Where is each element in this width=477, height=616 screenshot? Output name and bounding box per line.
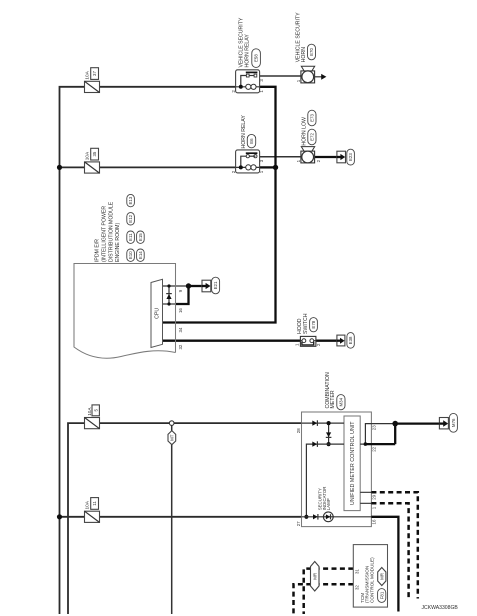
diode D4 on pin 27 row	[313, 514, 318, 519]
svg-text:E11: E11	[128, 233, 133, 241]
svg-text:35: 35	[92, 151, 97, 156]
CPU strip	[151, 279, 163, 347]
svg-text:JCKWA3308GB: JCKWA3308GB	[422, 605, 459, 611]
svg-text:HORN RELAY: HORN RELAY	[245, 34, 251, 68]
connector oval E10	[127, 249, 135, 261]
connector oval E6	[247, 134, 255, 147]
connector oval M76	[449, 413, 457, 432]
wire IPDM pin 16 row	[163, 303, 177, 305]
wire fuse row 3 to combination meter pin 28	[68, 423, 302, 614]
svg-text:METER: METER	[330, 390, 336, 408]
junction dot bus fuse row 4	[57, 514, 62, 519]
dashed CAN wire meter pin 1	[371, 503, 408, 598]
connector oval E13	[127, 194, 135, 206]
ground connector box E21 at IPDM	[202, 280, 211, 292]
connector oval E12	[127, 213, 135, 225]
relay R1 junction dot	[239, 85, 243, 89]
svg-text:34: 34	[178, 327, 183, 332]
wire left power bus with corner at fuse row 1	[60, 87, 236, 614]
connector oval E73	[308, 110, 316, 126]
wire relay pin 1 bus down to IPDM pin 34	[163, 87, 276, 323]
relay R1 coil wire segments	[236, 86, 260, 88]
svg-text:(INTELLIGENT POWER: (INTELLIGENT POWER	[102, 206, 108, 262]
svg-text:37: 37	[92, 71, 97, 76]
diode D1 on pin 28 row	[312, 421, 317, 426]
svg-text:28: 28	[296, 428, 301, 433]
relay R2 armature bar	[246, 152, 258, 154]
svg-text:10A: 10A	[85, 151, 90, 160]
fuse F1 10A 37	[85, 81, 100, 92]
svg-text:UNIFIED METER CONTROL UNIT: UNIFIED METER CONTROL UNIT	[350, 421, 356, 505]
svg-text:E15: E15	[138, 233, 143, 241]
diode D3 on pin 22 row	[312, 442, 317, 447]
relay R2 switch contacts	[246, 155, 249, 158]
svg-text:E23: E23	[348, 153, 353, 161]
wire IPDM pin 9 row	[163, 285, 189, 287]
svg-text:27: 27	[296, 521, 301, 526]
combination meter box	[302, 412, 372, 527]
junction dot IPDM pin 9 node	[186, 283, 191, 288]
meter internal row to pin 22 from pin 27 riser	[306, 444, 344, 517]
dashed CAN wire meter pin 29	[371, 492, 417, 598]
wire horn low pin 2 to ground connector E23	[315, 156, 337, 158]
diode IPDM internal (pointing up)	[166, 294, 171, 299]
svg-text:E12: E12	[128, 214, 133, 222]
relay R1 vehicle security horn relay box	[236, 70, 260, 93]
svg-text:22: 22	[371, 446, 376, 451]
junction dot node row28	[327, 421, 331, 425]
svg-text:LAMP: LAMP	[326, 498, 331, 510]
meter internal tie with diode D2	[328, 423, 330, 444]
svg-text:E58: E58	[254, 54, 259, 62]
svg-text:10A: 10A	[87, 407, 92, 416]
svg-text:32: 32	[178, 344, 183, 349]
fuse F3 10A 5	[85, 418, 100, 429]
horn low symbol	[301, 151, 315, 163]
connector oval E14	[137, 249, 145, 261]
wire IPDM pin 16 thick jog up to pin 9 node	[176, 286, 189, 304]
svg-text:32: 32	[354, 585, 359, 590]
IPDM E/R box outline with torn bottom edge	[74, 264, 176, 359]
junction dot IPDM diode bottom	[167, 302, 170, 305]
junction dot IPDM diode top	[167, 284, 170, 287]
vehicle security horn symbol	[301, 71, 315, 83]
connector oval E11	[127, 231, 135, 243]
svg-text:E38: E38	[348, 336, 353, 344]
svg-text:DISTRIBUTION MODULE: DISTRIBUTION MODULE	[108, 201, 114, 262]
wire IPDM node to connector E21	[189, 285, 203, 287]
TCM box	[353, 545, 387, 608]
ground connector box at horn low	[337, 151, 346, 163]
junction dot node row22	[327, 442, 331, 446]
ground connector box E38 at hood switch	[337, 335, 345, 346]
meter pin 16 wire thick to bottom	[371, 517, 398, 612]
wire relay R2 pin 3 to horn low	[260, 156, 301, 158]
svg-text:16: 16	[372, 519, 377, 524]
security indicator lamp	[323, 512, 333, 522]
variant tag hexagon M/T	[168, 431, 176, 445]
unified meter control unit box	[344, 416, 360, 511]
fuse F4 10A 11	[85, 511, 100, 522]
svg-text:11: 11	[92, 501, 97, 506]
meter ground tie rows 23 and 22	[360, 424, 395, 445]
node open circle M/T branch	[169, 421, 174, 426]
svg-text:MT: MT	[170, 434, 175, 441]
svg-text:MR: MR	[312, 573, 317, 580]
relay R2 coil wire segments	[236, 166, 260, 168]
ground arrow at vehicle security horn	[315, 76, 322, 78]
relay R2 horn relay box	[236, 150, 260, 173]
svg-text:MR: MR	[379, 573, 384, 580]
svg-text:E14: E14	[138, 251, 143, 259]
relay R2 junction dot	[239, 165, 243, 169]
wire meter ground to connector M76	[395, 422, 439, 424]
wire IPDM internal diode branch	[168, 286, 170, 304]
svg-text:CPU: CPU	[155, 308, 161, 319]
svg-text:SWITCH: SWITCH	[303, 313, 309, 334]
svg-text:F81: F81	[379, 591, 384, 599]
relay R2 coil-switch link	[241, 156, 247, 167]
svg-text:31: 31	[354, 569, 359, 574]
meter internal row pin 28	[302, 422, 345, 424]
relay R1 coil	[246, 84, 251, 89]
svg-text:M34: M34	[339, 397, 344, 406]
svg-text:HORN: HORN	[301, 47, 307, 63]
relay R1 coil-switch link	[241, 76, 247, 87]
wire relay R2 pin 1 to junction	[260, 166, 276, 168]
ground connector box M76	[439, 418, 448, 429]
connector oval E15	[137, 231, 145, 243]
junction dot pin 27 branch	[304, 515, 308, 519]
connector oval E72	[308, 129, 316, 145]
wire M/T branch vertical	[171, 425, 173, 614]
svg-text:HORN LOW: HORN LOW	[301, 117, 307, 146]
svg-text:E21: E21	[213, 281, 218, 289]
svg-text:CONTROL MODULE): CONTROL MODULE)	[369, 557, 374, 603]
relay R1 armature bar	[246, 71, 258, 73]
svg-text:10A: 10A	[85, 500, 90, 509]
variant tag hexagon MR on CAN wires	[311, 562, 320, 592]
wire relay R1 pin 3 to vehicle security horn	[260, 75, 301, 77]
svg-text:16: 16	[178, 308, 183, 313]
relay R1 switch contacts	[246, 74, 249, 77]
svg-text:IPDM E/R: IPDM E/R	[95, 239, 101, 262]
svg-text:23: 23	[371, 425, 376, 430]
wire fuse row 2 to horn relay	[60, 166, 236, 168]
wire IPDM pin 32 to hood switch	[163, 340, 301, 342]
hood switch terminals	[302, 339, 306, 343]
connector oval F81	[378, 589, 386, 603]
relay R2 coil	[246, 165, 251, 170]
svg-text:E10: E10	[128, 251, 133, 259]
hood switch box	[300, 336, 316, 346]
junction dot relay bus at horn relay pin 1	[273, 165, 278, 170]
svg-text:M76: M76	[451, 418, 456, 427]
fuse F2 10A 35	[85, 162, 100, 173]
meter CAN rows inside	[360, 492, 371, 503]
wire hood switch pin 2 to ground connector E38	[316, 340, 337, 342]
connector oval M34	[337, 395, 345, 410]
svg-text:HORN RELAY: HORN RELAY	[241, 115, 247, 149]
svg-text:E6: E6	[249, 138, 254, 144]
connector oval E23	[347, 149, 355, 165]
meter internal row pin 27 to lamp	[302, 516, 372, 518]
connector oval E21	[212, 277, 220, 294]
svg-text:E72: E72	[310, 133, 315, 141]
dashed CAN wire TCM pin 31	[304, 569, 354, 614]
variant tag hexagon MR inside TCM	[378, 568, 386, 586]
hood switch blade	[302, 342, 314, 345]
junction dot bus fuse row 2	[57, 165, 62, 170]
wire fuse row 4 to combination meter pin 27	[60, 516, 302, 518]
junction dot meter ground node	[392, 421, 398, 427]
connector oval E58	[252, 49, 261, 68]
svg-text:E73: E73	[310, 114, 315, 122]
connector oval E70	[308, 44, 316, 60]
connector oval E38	[347, 333, 354, 349]
connector oval E78	[310, 318, 318, 332]
dashed CAN wire TCM pin 32	[294, 584, 354, 614]
svg-text:29: 29	[371, 494, 376, 499]
svg-text:10A: 10A	[85, 70, 90, 79]
svg-text:E70: E70	[309, 48, 314, 56]
svg-text:E78: E78	[311, 320, 316, 328]
svg-text:E13: E13	[128, 196, 133, 204]
svg-text:ENGINE ROOM): ENGINE ROOM)	[115, 223, 121, 262]
